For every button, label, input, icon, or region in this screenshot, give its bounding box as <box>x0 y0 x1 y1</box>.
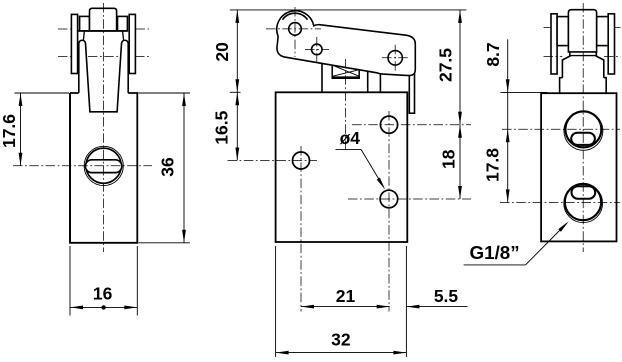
svg-text:17.8: 17.8 <box>482 148 502 182</box>
svg-text:G1/8”: G1/8” <box>470 242 520 263</box>
svg-text:36: 36 <box>158 157 178 177</box>
svg-text:17.6: 17.6 <box>0 114 19 148</box>
svg-text:21: 21 <box>336 286 356 306</box>
svg-text:16: 16 <box>93 283 113 303</box>
svg-text:5.5: 5.5 <box>434 286 459 306</box>
svg-text:20: 20 <box>212 42 232 62</box>
svg-text:32: 32 <box>331 330 351 350</box>
svg-text:8.7: 8.7 <box>483 42 503 66</box>
svg-text:18: 18 <box>439 149 459 169</box>
svg-text:27.5: 27.5 <box>436 48 456 82</box>
svg-text:16.5: 16.5 <box>212 110 232 144</box>
svg-text:ø4: ø4 <box>340 128 361 148</box>
